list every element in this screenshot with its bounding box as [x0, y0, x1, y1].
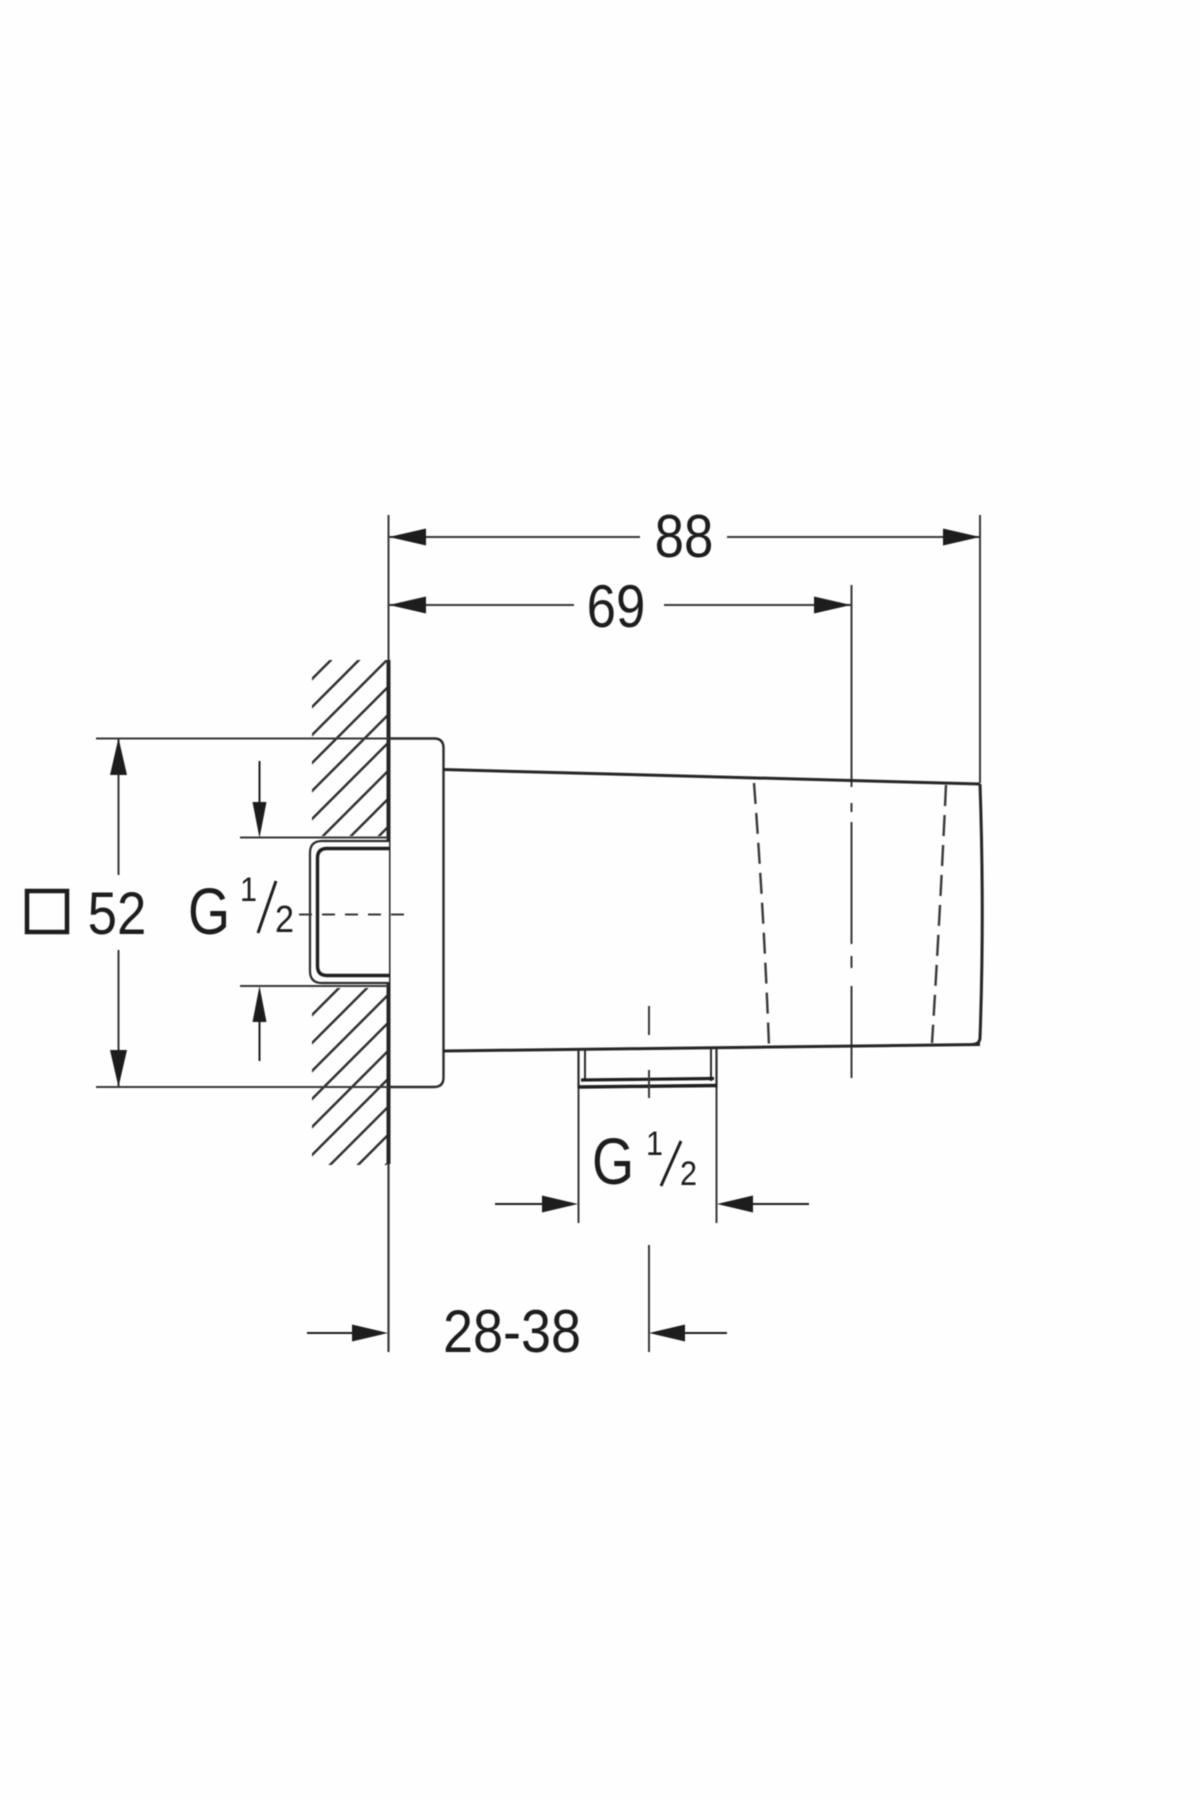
svg-text:1: 1 — [240, 871, 257, 909]
outlet centre line dash-dot — [648, 1006, 650, 1035]
dimension 88 line — [389, 536, 640, 538]
label G 1/2 bottom : fraction slash — [661, 1141, 681, 1186]
svg-text:G: G — [592, 1124, 634, 1198]
svg-text:2: 2 — [680, 1155, 697, 1193]
outlet extension line right — [716, 1088, 718, 1223]
dimension 28-38 arrow left — [307, 1332, 355, 1334]
body top edge — [443, 770, 980, 785]
svg-text:28-38: 28-38 — [443, 1298, 581, 1365]
holder silhouette dashed curve right — [932, 785, 946, 1043]
svg-text:69: 69 — [587, 573, 646, 640]
svg-text:1: 1 — [646, 1125, 663, 1163]
holder silhouette dashed curve left — [754, 783, 769, 1046]
label G 1/2 left : fraction slash — [258, 881, 276, 933]
wall hatch upper block — [312, 660, 387, 836]
outlet nipple inner right — [710, 1048, 712, 1081]
wall surface line — [388, 515, 390, 660]
outlet nipple outer left — [577, 1049, 579, 1088]
outlet nipple thick edge A — [581, 1079, 714, 1081]
outlet extension line left — [578, 1088, 580, 1223]
hole arrow top — [259, 761, 261, 806]
dimension 52 extension line bottom — [96, 1086, 388, 1088]
outlet nipple thick edge B — [578, 1086, 717, 1088]
flange (wall escutcheon) — [388, 739, 444, 1088]
dimension 88 extension line right — [979, 515, 981, 783]
dimension 52 line — [118, 738, 120, 875]
svg-text:52: 52 — [88, 880, 147, 947]
outlet nipple outer right — [715, 1048, 717, 1088]
svg-text:2: 2 — [275, 897, 294, 940]
dimension 69 extension / centre line of holder — [851, 585, 853, 787]
G1/2 hole inner thick outline — [318, 849, 390, 976]
dimension 52 extension line top — [96, 738, 388, 740]
dimension 28-38 arrow right — [683, 1332, 727, 1334]
svg-text:G: G — [188, 874, 230, 948]
outlet dimension arrow right — [750, 1203, 809, 1205]
hole extension line bottom — [240, 985, 388, 987]
outlet nipple inner left — [584, 1049, 586, 1081]
svg-text:88: 88 — [655, 503, 714, 570]
square symbol — [27, 891, 67, 932]
wall hatch lower block — [312, 988, 387, 1165]
body right end — [972, 784, 982, 1045]
hole arrow bottom — [259, 1018, 261, 1061]
hole extension line top — [240, 837, 388, 839]
outlet dimension arrow left — [495, 1203, 545, 1205]
G1/2 hole outer outline — [310, 841, 389, 983]
dimension 69 line — [389, 604, 574, 606]
body bottom edge — [443, 1045, 980, 1052]
hole centre dashed line — [299, 914, 413, 916]
